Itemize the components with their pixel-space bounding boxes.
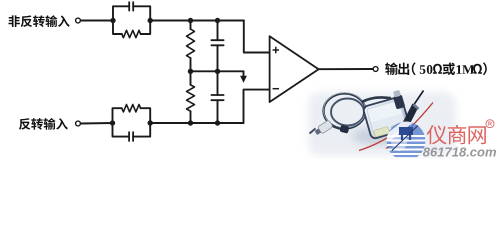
resistor R1 lead right	[141, 21, 151, 35]
resistor R2 lead right	[141, 108, 151, 123]
wire: top rail	[150, 20, 244, 22]
wire: input to RC1	[81, 20, 113, 22]
watermark logo circle	[384, 116, 427, 160]
resistor R4 lead bottom	[190, 111, 192, 123]
svg-text:861718.com: 861718.com	[423, 144, 497, 159]
wire: input to RC2	[81, 122, 113, 125]
junction top rail / C3	[215, 18, 220, 23]
op-amp U1	[270, 36, 319, 102]
wire: to op-amp - input	[244, 90, 270, 123]
cable connector	[340, 125, 350, 134]
label: non-inverting input 非反转输入	[9, 15, 70, 27]
resistor R3 lead top	[190, 21, 192, 30]
resistor R3 zigzag	[187, 29, 195, 58]
resistor R1 zigzag	[122, 30, 141, 37]
junction RC2 right	[148, 120, 153, 125]
terminal output	[373, 67, 378, 72]
probe body	[361, 90, 411, 140]
capacitor C2 leads (bottom branch)	[113, 123, 151, 137]
probe body shadow	[352, 127, 404, 145]
junction RC2 left	[110, 120, 115, 125]
adjustment arrow stem	[243, 71, 245, 76]
probe photo background tint	[308, 92, 456, 156]
probe tip pen	[399, 91, 424, 137]
capacitor C3 plates	[211, 40, 223, 45]
resistor R2 lead left	[113, 108, 122, 123]
capacitor C4 leads	[217, 71, 219, 123]
wire: bottom rail	[150, 122, 243, 124]
junction bottom rail / C4	[215, 120, 220, 125]
resistor R2 zigzag	[122, 105, 141, 112]
registered mark	[486, 120, 494, 128]
probe cable BNC plug	[310, 120, 334, 137]
probe cable coil	[324, 93, 392, 129]
adjustment arrow head	[240, 76, 247, 83]
terminal non-inverting input	[76, 18, 81, 23]
svg-text:R: R	[488, 122, 492, 128]
resistor R4 zigzag	[187, 85, 195, 111]
capacitor C4 plates	[211, 95, 223, 100]
capacitor C1 plates	[129, 2, 133, 10]
terminal inverting input	[76, 121, 81, 126]
junction middle node / R	[188, 69, 193, 74]
resistor R4 lead top	[190, 71, 192, 85]
capacitor C1 leads (top branch)	[113, 6, 150, 20]
red probe leads	[359, 103, 433, 151]
junction RC1 right	[148, 18, 153, 23]
watermark text 仪商网	[427, 125, 486, 144]
resistor R3 lead bottom	[190, 58, 192, 71]
watermark url 861718.com	[423, 144, 497, 159]
capacitor C3 leads	[217, 21, 219, 72]
resistor R1 lead left	[113, 21, 122, 35]
junction bottom rail / R4	[188, 120, 193, 125]
wire: to op-amp + input	[244, 21, 269, 53]
capacitor C2 plates	[129, 132, 133, 141]
label: inverting input 反转输入	[19, 118, 68, 130]
wire: middle node	[191, 70, 244, 72]
label: output 输出（50Ω或1MΩ）	[385, 62, 487, 75]
junction RC1 left	[110, 18, 115, 23]
junction top rail / R3	[188, 18, 193, 23]
wire: output	[319, 68, 373, 70]
junction middle node / C	[215, 69, 220, 74]
